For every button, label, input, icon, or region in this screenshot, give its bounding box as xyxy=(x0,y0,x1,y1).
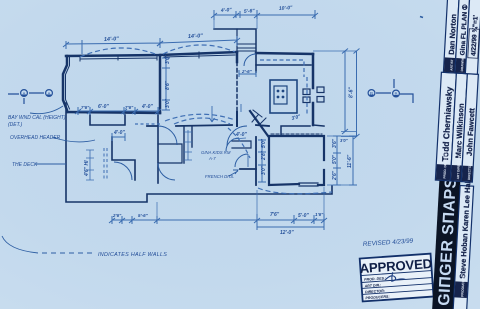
bottom-right room walls xyxy=(269,136,324,185)
bottom-right room dim chain xyxy=(333,136,341,185)
12'-0" sub dim xyxy=(257,224,324,230)
svg-text:3'0": 3'0" xyxy=(340,138,349,143)
4'-0" dim under xyxy=(112,133,125,141)
svg-text:BAY WND CAL (HEIGHT): BAY WND CAL (HEIGHT) xyxy=(8,115,66,121)
hall door arc 2 xyxy=(158,163,175,180)
french doors arc xyxy=(235,154,248,167)
wall dashed: middle room right opening xyxy=(236,62,238,112)
svg-text:A: A xyxy=(47,91,50,96)
right house dim vertical xyxy=(313,50,357,52)
svg-text:2'6": 2'6" xyxy=(332,170,338,181)
svg-text:ARTIST: ARTIST xyxy=(450,59,455,71)
window in bottom-right room bottom wall xyxy=(299,183,318,186)
wall: middle room right / kitchen divider xyxy=(236,52,239,62)
svg-text:7'6": 7'6" xyxy=(270,212,280,218)
svg-text:10'-0": 10'-0" xyxy=(279,5,294,12)
4'-0" near bath top xyxy=(233,138,246,139)
svg-text:5'0": 5'0" xyxy=(261,138,267,148)
svg-text:4'-0": 4'-0" xyxy=(235,132,247,138)
dashed curve hall to doors xyxy=(228,128,250,158)
hall door arc 1 xyxy=(158,126,177,145)
vestibule wall xyxy=(255,53,257,72)
svg-text:(DET.): (DET.) xyxy=(8,122,23,128)
svg-text:2'8": 2'8" xyxy=(261,150,267,161)
artist / drawing / date cells xyxy=(443,0,480,74)
names cells: prod designer / art director / director xyxy=(435,72,478,182)
svg-text:4'6" HI: 4'6" HI xyxy=(84,160,90,177)
svg-text:5'0": 5'0" xyxy=(332,154,338,164)
svg-text:3'0": 3'0" xyxy=(261,165,267,175)
deck outline xyxy=(66,103,332,202)
arch under middle room xyxy=(165,114,235,121)
bay window glazing inner line xyxy=(66,57,70,109)
arch over middle room xyxy=(163,45,235,54)
middle room inner chain xyxy=(162,58,170,110)
svg-text:3'0": 3'0" xyxy=(165,54,171,64)
svg-text:14'-0": 14'-0" xyxy=(104,36,120,43)
top small dims over porch xyxy=(214,10,315,20)
kitchen island xyxy=(270,80,297,113)
svg-text:3'6": 3'6" xyxy=(332,138,338,148)
svg-text:4'-0": 4'-0" xyxy=(113,130,125,136)
bathroom side chain xyxy=(258,140,266,182)
hall interior walls xyxy=(184,126,192,163)
title cell: GINGER SNAPS (dark) xyxy=(432,177,461,309)
svg-text:INDICATES HALF WALLS: INDICATES HALF WALLS xyxy=(98,252,167,258)
left section marker xyxy=(8,93,44,104)
svg-text:1'6": 1'6" xyxy=(315,212,324,217)
door swing arcs xyxy=(114,54,256,180)
left small vertical chain xyxy=(86,150,94,180)
stray mark top right xyxy=(420,17,423,18)
lower-left room door xyxy=(114,162,132,180)
left room bottom dims xyxy=(78,107,158,115)
svg-text:FRENCH DRS.: FRENCH DRS. xyxy=(205,174,234,179)
svg-text:7'6": 7'6" xyxy=(125,105,134,110)
pointer arrows in hall xyxy=(210,104,242,122)
hall wall under rooms xyxy=(147,125,269,126)
half wall dashes right of window seat xyxy=(135,123,160,125)
fireplace diagonal corner xyxy=(250,111,268,136)
svg-text:B: B xyxy=(370,91,373,96)
porch step rungs xyxy=(237,44,256,51)
svg-text:12'-0": 12'-0" xyxy=(280,230,294,236)
window seat bump below left room xyxy=(90,115,125,125)
wall: divider between left and middle rooms xyxy=(159,55,162,113)
small wall pieces lower xyxy=(112,137,135,180)
porch steps notch xyxy=(214,29,256,53)
svg-text:A: A xyxy=(22,91,25,96)
revised note xyxy=(363,237,414,248)
svg-text:4'-0": 4'-0" xyxy=(220,7,233,14)
half wall vertical xyxy=(104,148,107,180)
bathroom door xyxy=(226,138,239,151)
wall: left room top xyxy=(66,52,237,56)
kitchen counter dashes xyxy=(260,60,307,115)
top dim left room 14'-0" xyxy=(66,38,160,54)
svg-text:2'-6": 2'-6" xyxy=(241,69,253,74)
svg-text:THE DECK: THE DECK xyxy=(12,162,38,168)
hall ticks xyxy=(184,130,192,160)
small dim 2'6" right of front door xyxy=(239,70,256,77)
dashed ceiling arches xyxy=(80,45,332,194)
svg-text:11'-6": 11'-6" xyxy=(347,154,353,168)
wall: left room bottom xyxy=(67,112,160,113)
right section marker xyxy=(376,79,413,103)
bathroom walls xyxy=(255,137,257,185)
door to bottom right xyxy=(227,126,247,146)
wall: house right xyxy=(312,54,315,125)
note leader lines xyxy=(2,106,238,253)
svg-text:2'6": 2'6" xyxy=(112,213,122,218)
svg-text:8'-6": 8'-6" xyxy=(349,87,355,98)
svg-text:8'6": 8'6" xyxy=(165,80,171,90)
inner front wall line kitchen xyxy=(256,64,311,66)
svg-text:6'-0": 6'-0" xyxy=(98,104,109,110)
svg-text:B: B xyxy=(394,92,397,97)
door jambs right wall xyxy=(303,87,324,103)
dashed curve under bottom-right room xyxy=(258,188,332,194)
bottom main dim chain xyxy=(112,219,324,221)
closet xyxy=(158,144,182,163)
svg-text:3'0": 3'0" xyxy=(165,98,171,108)
window glazing line middle room top xyxy=(164,52,235,58)
svg-text:7'6": 7'6" xyxy=(81,105,90,110)
wall: top right xyxy=(256,53,313,54)
arch in hall xyxy=(174,118,230,124)
hall left wall xyxy=(157,114,159,183)
wall: bay window left end xyxy=(63,56,67,112)
arch over left room xyxy=(80,48,158,57)
svg-text:5'-0": 5'-0" xyxy=(298,213,309,219)
svg-text:5'-6": 5'-6" xyxy=(138,213,149,218)
svg-text:GINA KIDS RM: GINA KIDS RM xyxy=(201,150,231,155)
svg-text:14'-0": 14'-0" xyxy=(188,33,204,40)
svg-text:A-7: A-7 xyxy=(208,156,216,161)
svg-text:OVERHEAD HEADER: OVERHEAD HEADER xyxy=(10,135,61,141)
wall: corridor to bottom-right room xyxy=(313,125,324,126)
window glazing line left room top xyxy=(80,55,157,61)
svg-text:5'-6": 5'-6" xyxy=(244,8,256,15)
signature scribble xyxy=(385,271,406,281)
top dim middle room 14'-0" xyxy=(160,36,237,46)
svg-text:4'-0": 4'-0" xyxy=(141,104,153,110)
front door arc xyxy=(244,54,256,66)
wall: middle room right lower xyxy=(236,112,238,126)
producers cell xyxy=(453,179,474,309)
